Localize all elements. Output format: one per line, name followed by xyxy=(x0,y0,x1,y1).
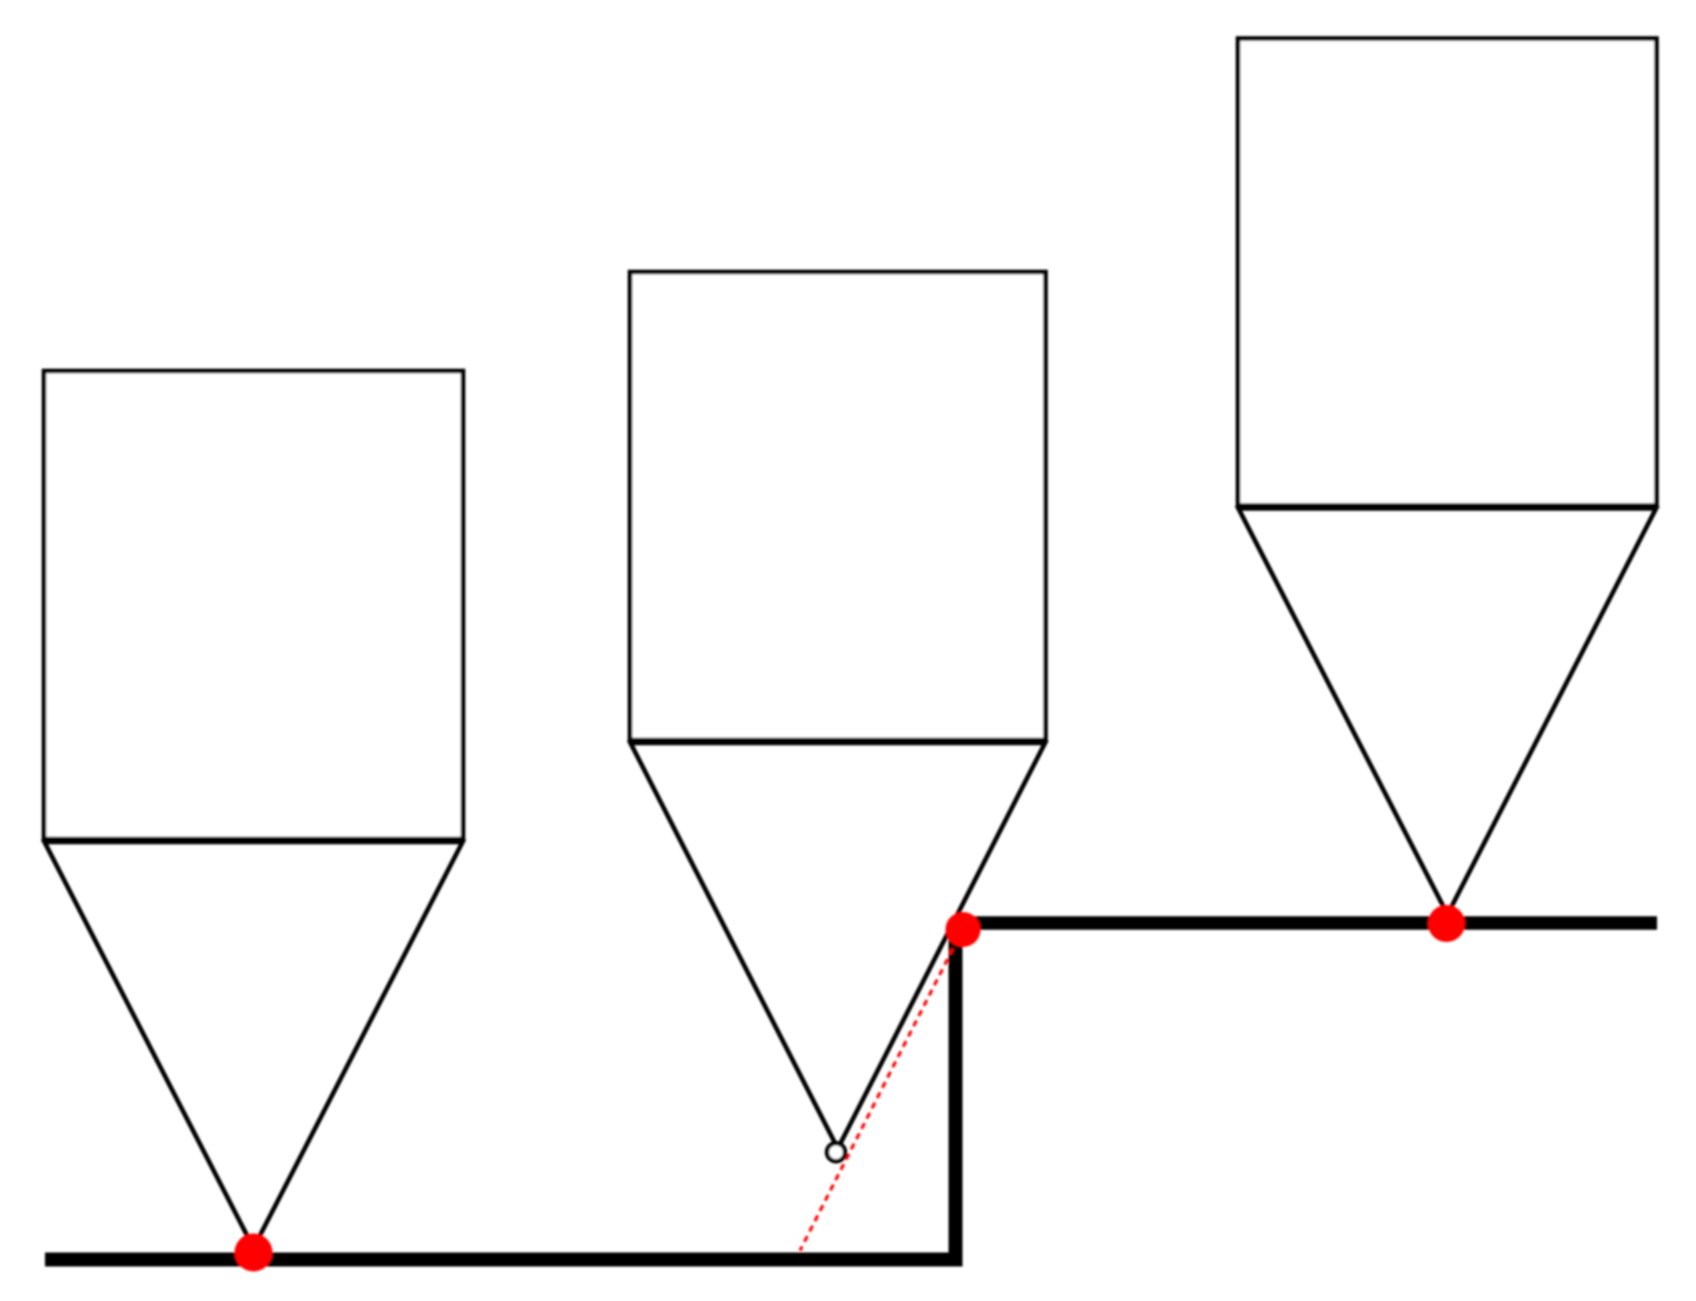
probe 1 tip (left triangle) xyxy=(45,842,463,1248)
contact point dot 3 (red, tip apex on upper terrace) xyxy=(1428,905,1465,942)
probe 2 tip (middle triangle, side touching step corner) xyxy=(631,743,1046,1149)
apex marker ring (open circle at middle tip apex, not touching surface) xyxy=(827,1143,845,1161)
apex trajectory (red dashed line from step corner down to lower terrace) xyxy=(800,939,958,1251)
surface upper terrace line xyxy=(960,916,1657,930)
surface profile: lower terrace, step riser, upper terrace (thick black stepped wire) xyxy=(45,930,956,1260)
probe 3 body (right rectangle) xyxy=(1238,39,1657,506)
probe 2 body (middle rectangle) xyxy=(630,272,1046,740)
contact point dot 1 (red, tip apex on lower terrace) xyxy=(235,1234,273,1272)
probe 1 body (left rectangle) xyxy=(44,371,463,839)
contact point dot 2 (red, on step corner) xyxy=(946,912,981,947)
probe 3 tip (right triangle) xyxy=(1239,509,1657,915)
